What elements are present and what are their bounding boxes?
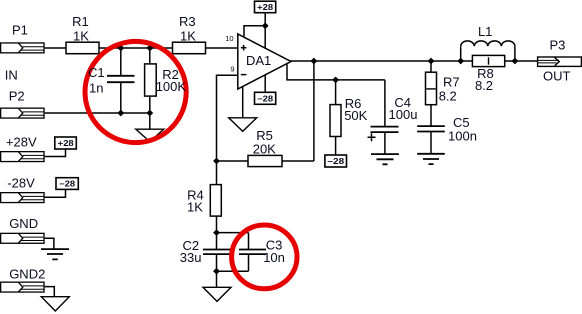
svg-text:20K: 20K <box>253 142 276 157</box>
svg-text:−28: −28 <box>327 157 345 166</box>
svg-text:+28: +28 <box>257 3 274 12</box>
svg-text:+28: +28 <box>58 139 75 148</box>
svg-text:R1: R1 <box>72 14 89 29</box>
svg-text:10n: 10n <box>263 250 285 265</box>
svg-text:10: 10 <box>225 34 233 43</box>
svg-text:P1: P1 <box>12 22 28 37</box>
svg-text:-28V: -28V <box>7 176 35 191</box>
svg-text:P3: P3 <box>549 38 565 53</box>
svg-text:8.2: 8.2 <box>475 78 493 93</box>
svg-text:OUT: OUT <box>543 69 571 84</box>
svg-text:1K: 1K <box>180 29 196 44</box>
svg-text:−28: −28 <box>59 180 76 189</box>
svg-text:1K: 1K <box>187 200 203 215</box>
svg-text:L1: L1 <box>478 24 492 39</box>
svg-text:100K: 100K <box>156 79 187 94</box>
svg-text:C1: C1 <box>88 65 105 80</box>
svg-text:GND2: GND2 <box>9 267 45 282</box>
svg-text:P2: P2 <box>9 88 25 103</box>
svg-text:IN: IN <box>5 67 18 82</box>
svg-text:−28: −28 <box>257 94 274 103</box>
svg-text:33u: 33u <box>180 250 202 265</box>
svg-text:1n: 1n <box>89 80 103 95</box>
svg-text:GND: GND <box>9 216 38 231</box>
svg-text:8.2: 8.2 <box>439 89 457 104</box>
svg-text:9: 9 <box>230 64 234 73</box>
svg-text:R3: R3 <box>179 14 196 29</box>
svg-text:50K: 50K <box>344 108 367 123</box>
svg-text:R7: R7 <box>443 75 460 90</box>
svg-text:DA1: DA1 <box>246 53 271 68</box>
svg-text:100u: 100u <box>389 107 418 122</box>
svg-text:100n: 100n <box>448 129 477 144</box>
svg-text:1K: 1K <box>73 28 89 43</box>
svg-text:+28V: +28V <box>6 134 37 149</box>
